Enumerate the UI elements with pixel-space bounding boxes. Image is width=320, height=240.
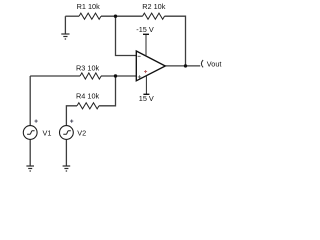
svg-text:R3 10k: R3 10k [76, 63, 99, 72]
svg-text:15 V: 15 V [139, 94, 154, 103]
svg-text:R4 10k: R4 10k [76, 91, 99, 100]
svg-text:R2 10k: R2 10k [142, 2, 165, 11]
svg-text:-15 V: -15 V [136, 25, 154, 34]
svg-text:Vout: Vout [207, 59, 222, 68]
svg-text:R1 10k: R1 10k [77, 2, 100, 11]
svg-text:V1: V1 [43, 129, 52, 138]
svg-text:V2: V2 [77, 129, 86, 138]
